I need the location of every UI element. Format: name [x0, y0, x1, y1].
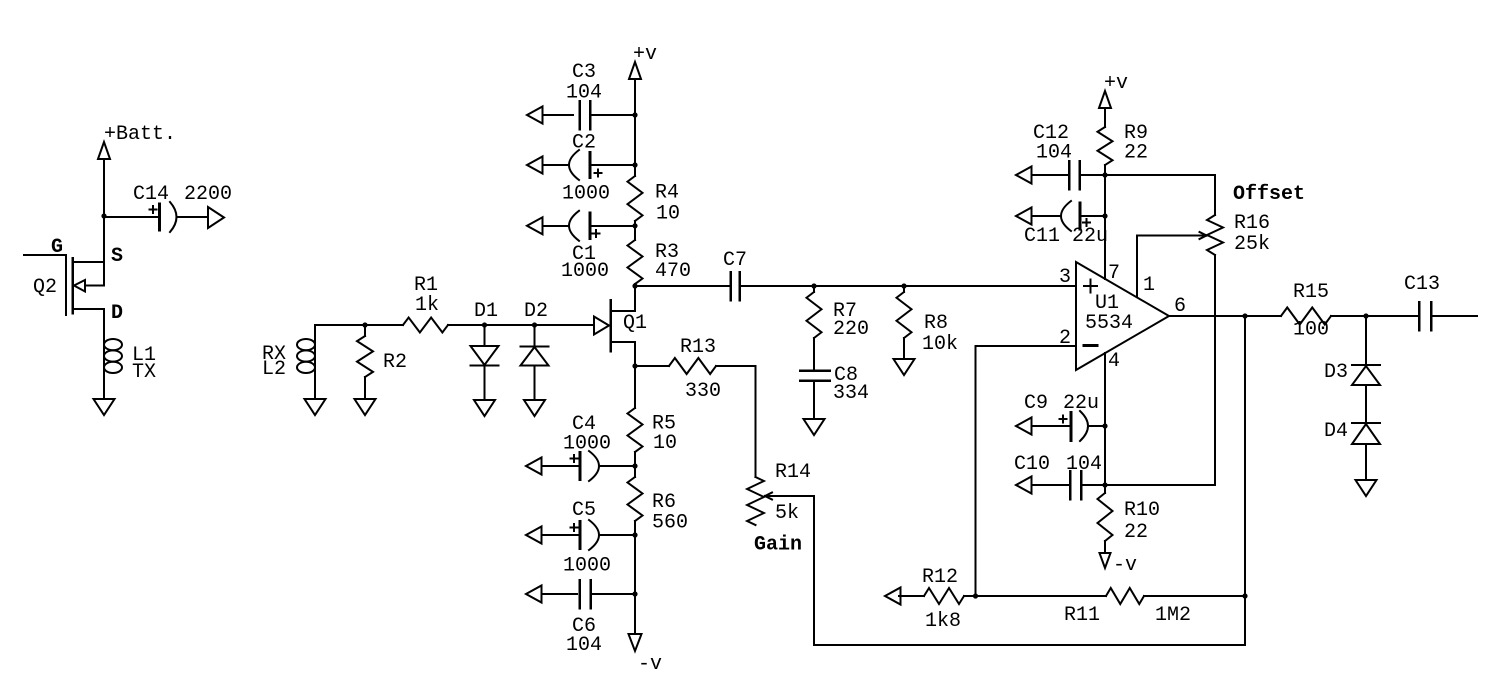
wire +Batt to Q2 source	[103, 216, 105, 262]
svg-text:334: 334	[833, 382, 869, 405]
svg-text:100: 100	[1293, 319, 1329, 342]
svg-text:1000: 1000	[563, 433, 611, 456]
wire Q1 source down	[634, 342, 636, 366]
potentiometer R14	[747, 477, 764, 525]
diode D1	[484, 325, 486, 346]
node R7	[811, 283, 816, 288]
svg-text:5534: 5534	[1085, 312, 1133, 335]
node C3	[632, 112, 637, 117]
svg-text:C10: C10	[1014, 453, 1050, 476]
svg-text:R4: R4	[655, 182, 679, 205]
capacitor C11	[1031, 215, 1061, 217]
svg-text:22u: 22u	[1063, 392, 1099, 415]
capacitor C12	[1031, 174, 1067, 176]
svg-text:-v: -v	[638, 653, 662, 676]
arrow C3 left	[527, 107, 543, 124]
svg-text:10: 10	[653, 432, 677, 455]
svg-text:D3: D3	[1324, 361, 1348, 384]
resistor R5	[628, 408, 643, 452]
wire pin4 rail	[1104, 353, 1106, 493]
diode D3	[1352, 364, 1380, 366]
capacitor C1	[541, 225, 569, 227]
node C11	[1102, 213, 1107, 218]
arrow C11 left	[1016, 208, 1032, 225]
arrow R12 left	[885, 588, 901, 605]
diode D4	[1352, 422, 1380, 424]
svg-text:Offset: Offset	[1233, 183, 1305, 206]
wire op-amp output	[1169, 315, 1281, 317]
svg-text:2200: 2200	[184, 183, 232, 206]
svg-text:R11: R11	[1064, 604, 1100, 627]
svg-text:+v: +v	[1104, 72, 1128, 95]
arrow C12 left	[1016, 167, 1032, 184]
wire node to D3	[1365, 316, 1367, 365]
node C6	[632, 591, 637, 596]
resistor R6	[634, 466, 636, 477]
svg-text:1k8: 1k8	[925, 610, 961, 633]
svg-text:1000: 1000	[563, 555, 611, 578]
node L2/R2/R1	[362, 322, 367, 327]
wire Q1 drain up	[634, 286, 636, 311]
svg-text:R14: R14	[775, 461, 811, 484]
node C10	[1102, 482, 1107, 487]
arrow C5 left	[526, 527, 542, 544]
arrow C1 left	[527, 217, 543, 234]
svg-text:C9: C9	[1024, 392, 1048, 415]
power -v right	[1100, 553, 1111, 568]
arrow C4 left	[526, 458, 542, 475]
ground R2	[355, 399, 376, 415]
capacitor C4	[541, 465, 578, 467]
svg-text:330: 330	[685, 380, 721, 403]
node C2	[632, 162, 637, 167]
svg-text:10k: 10k	[922, 333, 958, 356]
svg-text:D4: D4	[1324, 420, 1348, 443]
capacitor C8	[800, 369, 830, 372]
svg-text:-v: -v	[1113, 554, 1137, 577]
svg-text:L2: L2	[262, 358, 286, 381]
ground D4	[1356, 480, 1377, 496]
wire D3 to D4	[1365, 385, 1367, 423]
wire pin2 to feedback	[976, 346, 1077, 596]
svg-text:3: 3	[1059, 266, 1071, 289]
resistor R3	[634, 226, 636, 240]
svg-text:C7: C7	[723, 249, 747, 272]
svg-text:C11 22u: C11 22u	[1024, 225, 1108, 248]
wire C14 to arrow	[177, 216, 209, 218]
arrow C6 left	[526, 586, 542, 603]
wire R16 bottom	[1214, 255, 1216, 485]
svg-text:1000: 1000	[562, 183, 610, 206]
svg-text:25k: 25k	[1234, 233, 1270, 256]
resistor R4	[628, 176, 643, 221]
capacitor C9	[1032, 425, 1069, 427]
svg-text:G: G	[51, 236, 63, 259]
svg-text:R15: R15	[1293, 281, 1329, 304]
svg-text:D2: D2	[524, 300, 548, 323]
node R3/Q1/C7	[632, 283, 637, 288]
wire R15 to C13	[1331, 315, 1417, 317]
svg-text:6: 6	[1174, 295, 1186, 318]
svg-text:1000: 1000	[561, 260, 609, 283]
resistor R15	[1281, 308, 1331, 325]
resistor R8	[903, 286, 905, 292]
svg-text:R12: R12	[922, 566, 958, 589]
node D3	[1363, 313, 1368, 318]
ground D2	[524, 400, 545, 416]
svg-text:D1: D1	[474, 300, 498, 323]
capacitor C5	[541, 534, 578, 536]
ground D1	[474, 400, 495, 416]
svg-text:+Batt.: +Batt.	[104, 123, 176, 146]
wire node to C7	[635, 285, 729, 287]
node R8	[901, 283, 906, 288]
svg-text:Gain: Gain	[754, 534, 802, 557]
capacitor C2	[541, 164, 569, 166]
power -v center	[634, 594, 636, 634]
node Q1 source	[632, 363, 637, 368]
node C1	[632, 223, 637, 228]
svg-text:1M2: 1M2	[1155, 604, 1191, 627]
resistor R2	[364, 325, 366, 336]
capacitor C13	[1418, 302, 1421, 330]
svg-text:104: 104	[1036, 142, 1072, 165]
node C9	[1102, 423, 1107, 428]
node D2	[532, 322, 537, 327]
svg-text:10: 10	[656, 203, 680, 226]
svg-text:22: 22	[1124, 521, 1148, 544]
wire C7 to op-amp pin3	[741, 285, 1076, 287]
node feedback junction	[973, 593, 978, 598]
node C4	[632, 463, 637, 468]
arrow C10 left	[1016, 477, 1032, 494]
wire +v rail to C2	[634, 115, 636, 176]
wire junction to R11	[976, 595, 1107, 597]
svg-text:R13: R13	[680, 336, 716, 359]
wire R11 to output node	[1144, 595, 1245, 597]
wire R14 wiper to feedback	[765, 496, 1245, 645]
resistor R12	[899, 595, 924, 597]
wire source to R5	[634, 366, 636, 408]
svg-text:R10: R10	[1124, 499, 1160, 522]
svg-text:C5: C5	[572, 499, 596, 522]
svg-text:1k: 1k	[415, 294, 439, 317]
svg-text:104: 104	[566, 634, 602, 657]
svg-text:C14: C14	[133, 183, 169, 206]
wire source to R13	[635, 365, 669, 367]
wire pin1 to R16 wiper	[1137, 236, 1207, 297]
svg-text:104: 104	[566, 82, 602, 105]
svg-text:470: 470	[655, 260, 691, 283]
resistor R7	[813, 286, 815, 292]
capacitor C3	[541, 114, 573, 116]
op-amp U1	[1076, 262, 1169, 370]
diode D2	[534, 325, 536, 347]
ground C8	[804, 419, 825, 435]
wire R1 to Q1 gate	[448, 324, 594, 326]
svg-text:220: 220	[833, 318, 869, 341]
wire L2 to ground	[314, 373, 316, 399]
resistor R13	[669, 358, 716, 374]
wire input node	[315, 324, 403, 326]
svg-text:R2: R2	[383, 351, 407, 374]
wire R13 to R14	[716, 366, 756, 477]
svg-text:D: D	[111, 302, 123, 325]
arrow C9 left	[1016, 418, 1032, 435]
wire C10 to R16 bottom	[1105, 484, 1215, 486]
resistor R11	[1106, 588, 1144, 604]
node D1	[482, 322, 487, 327]
svg-text:4: 4	[1108, 350, 1120, 373]
svg-text:560: 560	[652, 512, 688, 535]
arrow C14 right	[208, 207, 224, 228]
potentiometer R16	[1207, 215, 1223, 255]
wire pin7 rail	[1104, 175, 1106, 279]
node Q2 source	[101, 213, 106, 218]
ground L2	[305, 399, 326, 415]
wire output to R11 node	[1244, 316, 1246, 596]
node R9/C12	[1102, 172, 1107, 177]
capacitor C6	[541, 593, 577, 595]
resistor R10	[1098, 493, 1113, 541]
arrow C2 left	[527, 157, 543, 174]
svg-text:5k: 5k	[775, 502, 799, 525]
svg-text:22: 22	[1124, 142, 1148, 165]
ground L1	[94, 399, 115, 415]
svg-text:R8: R8	[924, 312, 948, 335]
node output feedback	[1242, 313, 1247, 318]
ground R8	[894, 359, 915, 375]
wire L1 to ground	[103, 373, 105, 399]
svg-text:R16: R16	[1234, 212, 1270, 235]
wire Q2 drain to L1	[103, 309, 105, 339]
capacitor C10	[1032, 484, 1068, 486]
inductor L2	[314, 325, 316, 339]
wire D4 to ground	[1365, 444, 1367, 480]
svg-text:TX: TX	[132, 361, 156, 384]
svg-text:C13: C13	[1404, 273, 1440, 296]
wire C5 to C6	[634, 535, 636, 594]
capacitor C7	[729, 272, 732, 300]
node R11 right	[1242, 593, 1247, 598]
wire R9 node to R16 top	[1105, 175, 1215, 215]
resistor R1	[403, 318, 448, 333]
svg-text:+v: +v	[633, 43, 657, 66]
svg-text:Q2: Q2	[33, 276, 57, 299]
capacitor C14	[104, 216, 157, 218]
svg-text:7: 7	[1108, 262, 1120, 285]
node C5	[632, 532, 637, 537]
resistor R9	[1104, 108, 1106, 127]
transistor Q1	[594, 317, 609, 335]
svg-text:C2: C2	[572, 132, 596, 155]
svg-text:104: 104	[1066, 453, 1102, 476]
svg-text:1: 1	[1143, 274, 1155, 297]
svg-text:S: S	[111, 245, 123, 268]
svg-text:Q1: Q1	[623, 312, 647, 335]
inductor L1	[103, 339, 105, 373]
transistor Q2	[24, 254, 66, 256]
